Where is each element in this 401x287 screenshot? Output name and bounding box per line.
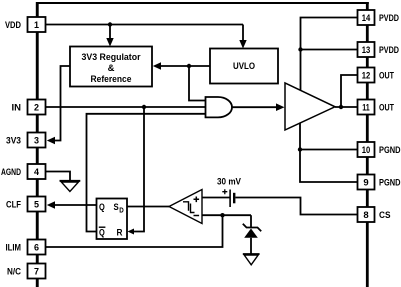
- svg-text:PVDD: PVDD: [379, 45, 399, 56]
- svg-text:CS: CS: [379, 210, 391, 221]
- ground below zener: [243, 253, 260, 255]
- svg-text:5: 5: [34, 200, 39, 210]
- svg-text:10: 10: [362, 145, 371, 156]
- 3V3 regulator block U-REG: [70, 47, 152, 87]
- svg-text:4: 4: [34, 167, 39, 177]
- wire: IN branch down to latch R input: [133, 107, 144, 232]
- svg-text:PVDD: PVDD: [379, 13, 399, 24]
- pin 6 ILIM: [28, 240, 46, 255]
- node: output junction: [339, 105, 343, 109]
- wire: AND gate output to driver with arrowhead: [232, 106, 276, 108]
- pin 2 IN: [28, 100, 46, 115]
- svg-text:6: 6: [34, 243, 39, 253]
- hysteresis symbol inside comparator: [183, 202, 195, 213]
- wire: UVLO output to regulator with arrowhead: [160, 65, 210, 67]
- wire: battery to CS pin 8: [235, 198, 357, 215]
- wire: comparator minus input to zener: [202, 214, 251, 216]
- pin 8 CS: [358, 207, 375, 222]
- svg-text:11: 11: [362, 103, 370, 114]
- wire: latch Q output to pin 5 with arrowhead: [55, 204, 97, 206]
- svg-text:9: 9: [363, 178, 368, 189]
- wire: ILIM from pin 6 up to comparator minus: [46, 215, 223, 247]
- pin 11 OUT: [358, 100, 375, 115]
- node: junction on IN line: [142, 105, 146, 109]
- svg-text:UVLO: UVLO: [233, 61, 255, 72]
- wire: PGND branch to pin 10: [300, 149, 358, 151]
- svg-text:Reference: Reference: [91, 74, 132, 85]
- svg-text:PGND: PGND: [379, 145, 401, 156]
- pin 13 PVDD: [358, 42, 375, 57]
- svg-text:7: 7: [34, 267, 39, 277]
- UVLO block: [210, 49, 278, 84]
- svg-text:2: 2: [34, 103, 39, 113]
- wire: latch Qbar feedback to AND gate bottom input: [87, 114, 206, 232]
- svg-text:Q: Q: [99, 228, 105, 238]
- svg-text:CLF: CLF: [6, 200, 21, 211]
- wire: PVDD from pin 14 down to driver: [301, 18, 358, 91]
- svg-text:13: 13: [362, 45, 371, 56]
- svg-text:VDD: VDD: [5, 20, 21, 31]
- AND gate U-AND: [206, 97, 233, 117]
- svg-text:30 mV: 30 mV: [217, 177, 242, 188]
- svg-text:ILIM: ILIM: [6, 243, 22, 254]
- wire: AGND from pin 4 to ground: [46, 172, 71, 181]
- svg-text:&: &: [108, 63, 115, 74]
- pin 5 CLF: [28, 197, 46, 212]
- svg-text:OUT: OUT: [379, 103, 394, 114]
- op-amp U-DRV output driver triangle: [285, 83, 335, 130]
- wire: IN signal from pin 2 to AND gate middle input: [46, 106, 206, 108]
- pin 10 PGND: [358, 142, 375, 157]
- svg-text:8: 8: [363, 210, 368, 221]
- svg-text:D: D: [119, 208, 124, 215]
- pin 9 PGND: [358, 175, 375, 190]
- node: VDD junction above regulator: [108, 22, 112, 26]
- flip-flop latch U-FF: [97, 199, 128, 240]
- wire: output branch up to pin 12: [341, 75, 358, 107]
- wire: driver ground down to PGND pins: [300, 123, 358, 183]
- svg-text:R: R: [117, 228, 123, 238]
- svg-text:PGND: PGND: [379, 178, 401, 189]
- battery V1 30 mV: [202, 197, 230, 199]
- wire: driver output to pin 11: [335, 106, 358, 108]
- plus label on comparator: [194, 197, 200, 203]
- svg-text:S: S: [114, 202, 119, 212]
- svg-text:OUT: OUT: [379, 71, 394, 82]
- svg-text:3V3: 3V3: [6, 136, 21, 147]
- pin 12 OUT: [358, 68, 375, 83]
- wire: VDD drop into UVLO top: [242, 25, 244, 41]
- svg-text:3V3 Regulator: 3V3 Regulator: [82, 52, 141, 63]
- wire: right pin bus: [366, 2, 369, 287]
- pin 4 AGND: [28, 164, 46, 179]
- pin 7 N/C: [28, 264, 46, 279]
- comparator U-CMP (points left): [169, 190, 202, 224]
- wire: UVLO branch down to AND gate top input: [189, 66, 206, 101]
- svg-text:12: 12: [362, 71, 371, 82]
- svg-text:Q: Q: [99, 202, 105, 212]
- wire: comparator output to latch S input: [127, 206, 169, 208]
- svg-text:3: 3: [34, 136, 39, 146]
- svg-text:14: 14: [362, 13, 371, 24]
- wire: left pin bus: [36, 2, 39, 287]
- pin 14 PVDD: [358, 10, 375, 25]
- node: junction on UVLO-regulator line: [187, 64, 191, 68]
- node: PGND junction: [298, 147, 302, 151]
- wire: VDD drop into regulator top: [109, 25, 111, 39]
- wire: PVDD from pin 13: [301, 49, 358, 51]
- svg-text:1: 1: [34, 20, 39, 30]
- ground for AGND: [60, 180, 81, 182]
- wire: VDD rail from pin 1 to UVLO: [46, 24, 244, 26]
- minus label on comparator: [194, 215, 200, 217]
- svg-text:AGND: AGND: [1, 167, 21, 178]
- wire: 3V3 output from regulator down to pin 3: [55, 66, 70, 141]
- pin 3 3V3: [28, 133, 46, 148]
- pin 1 VDD: [28, 17, 46, 32]
- svg-text:N/C: N/C: [7, 267, 21, 278]
- zener diode D1: [250, 215, 252, 227]
- svg-text:IN: IN: [12, 103, 22, 114]
- wire: package top boundary: [36, 2, 369, 4]
- node: ILIM junction: [220, 213, 224, 217]
- node: PVDD junction: [298, 47, 302, 51]
